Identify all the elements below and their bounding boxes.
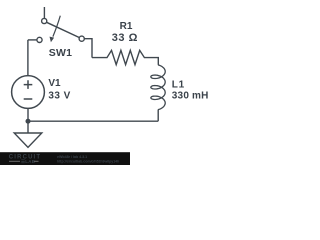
- switch SW1 arrowhead: [50, 37, 55, 43]
- V1 plus sign: [24, 80, 33, 89]
- svg-text:L1: L1: [172, 80, 185, 91]
- wire left rail down to V1: [27, 40, 29, 76]
- svg-text:SW1: SW1: [49, 47, 72, 59]
- svg-text:☰LAB: ☰LAB: [21, 159, 35, 164]
- wire junction to ground: [27, 121, 29, 133]
- switch SW1 right terminal circle: [79, 36, 84, 41]
- svg-text:33 V: 33 V: [48, 90, 70, 101]
- wire bottom rail: [28, 120, 158, 122]
- svg-text:http://circuitlab.com/c/h52h9w: http://circuitlab.com/c/h52h9w6py14h: [57, 159, 119, 163]
- svg-text:V1: V1: [48, 78, 61, 89]
- wire from SW1 left terminal to left rail: [28, 39, 37, 41]
- switch SW1 blade: [47, 22, 80, 37]
- switch SW1 top terminal circle: [42, 18, 47, 23]
- watermark bar: [0, 152, 130, 165]
- wire inductor bottom lead: [157, 110, 159, 122]
- wire from SW1 right terminal: [84, 39, 92, 58]
- node junction dot: [26, 119, 31, 124]
- voltage source V1 circle: [12, 76, 45, 109]
- wire V1 bottom to junction: [27, 108, 29, 121]
- V1 minus sign: [24, 98, 33, 100]
- svg-text:R1: R1: [120, 21, 133, 32]
- svg-text:330 mH: 330 mH: [172, 91, 209, 102]
- inductor L1 coil: [151, 65, 165, 110]
- wire top stub of SW1: [43, 7, 45, 18]
- switch SW1 left terminal circle: [37, 37, 42, 42]
- svg-text:33 Ω: 33 Ω: [112, 32, 138, 44]
- ground symbol triangle: [14, 133, 42, 147]
- resistor R1 zigzag: [92, 50, 158, 65]
- switch SW1 actuation arrow: [53, 16, 60, 37]
